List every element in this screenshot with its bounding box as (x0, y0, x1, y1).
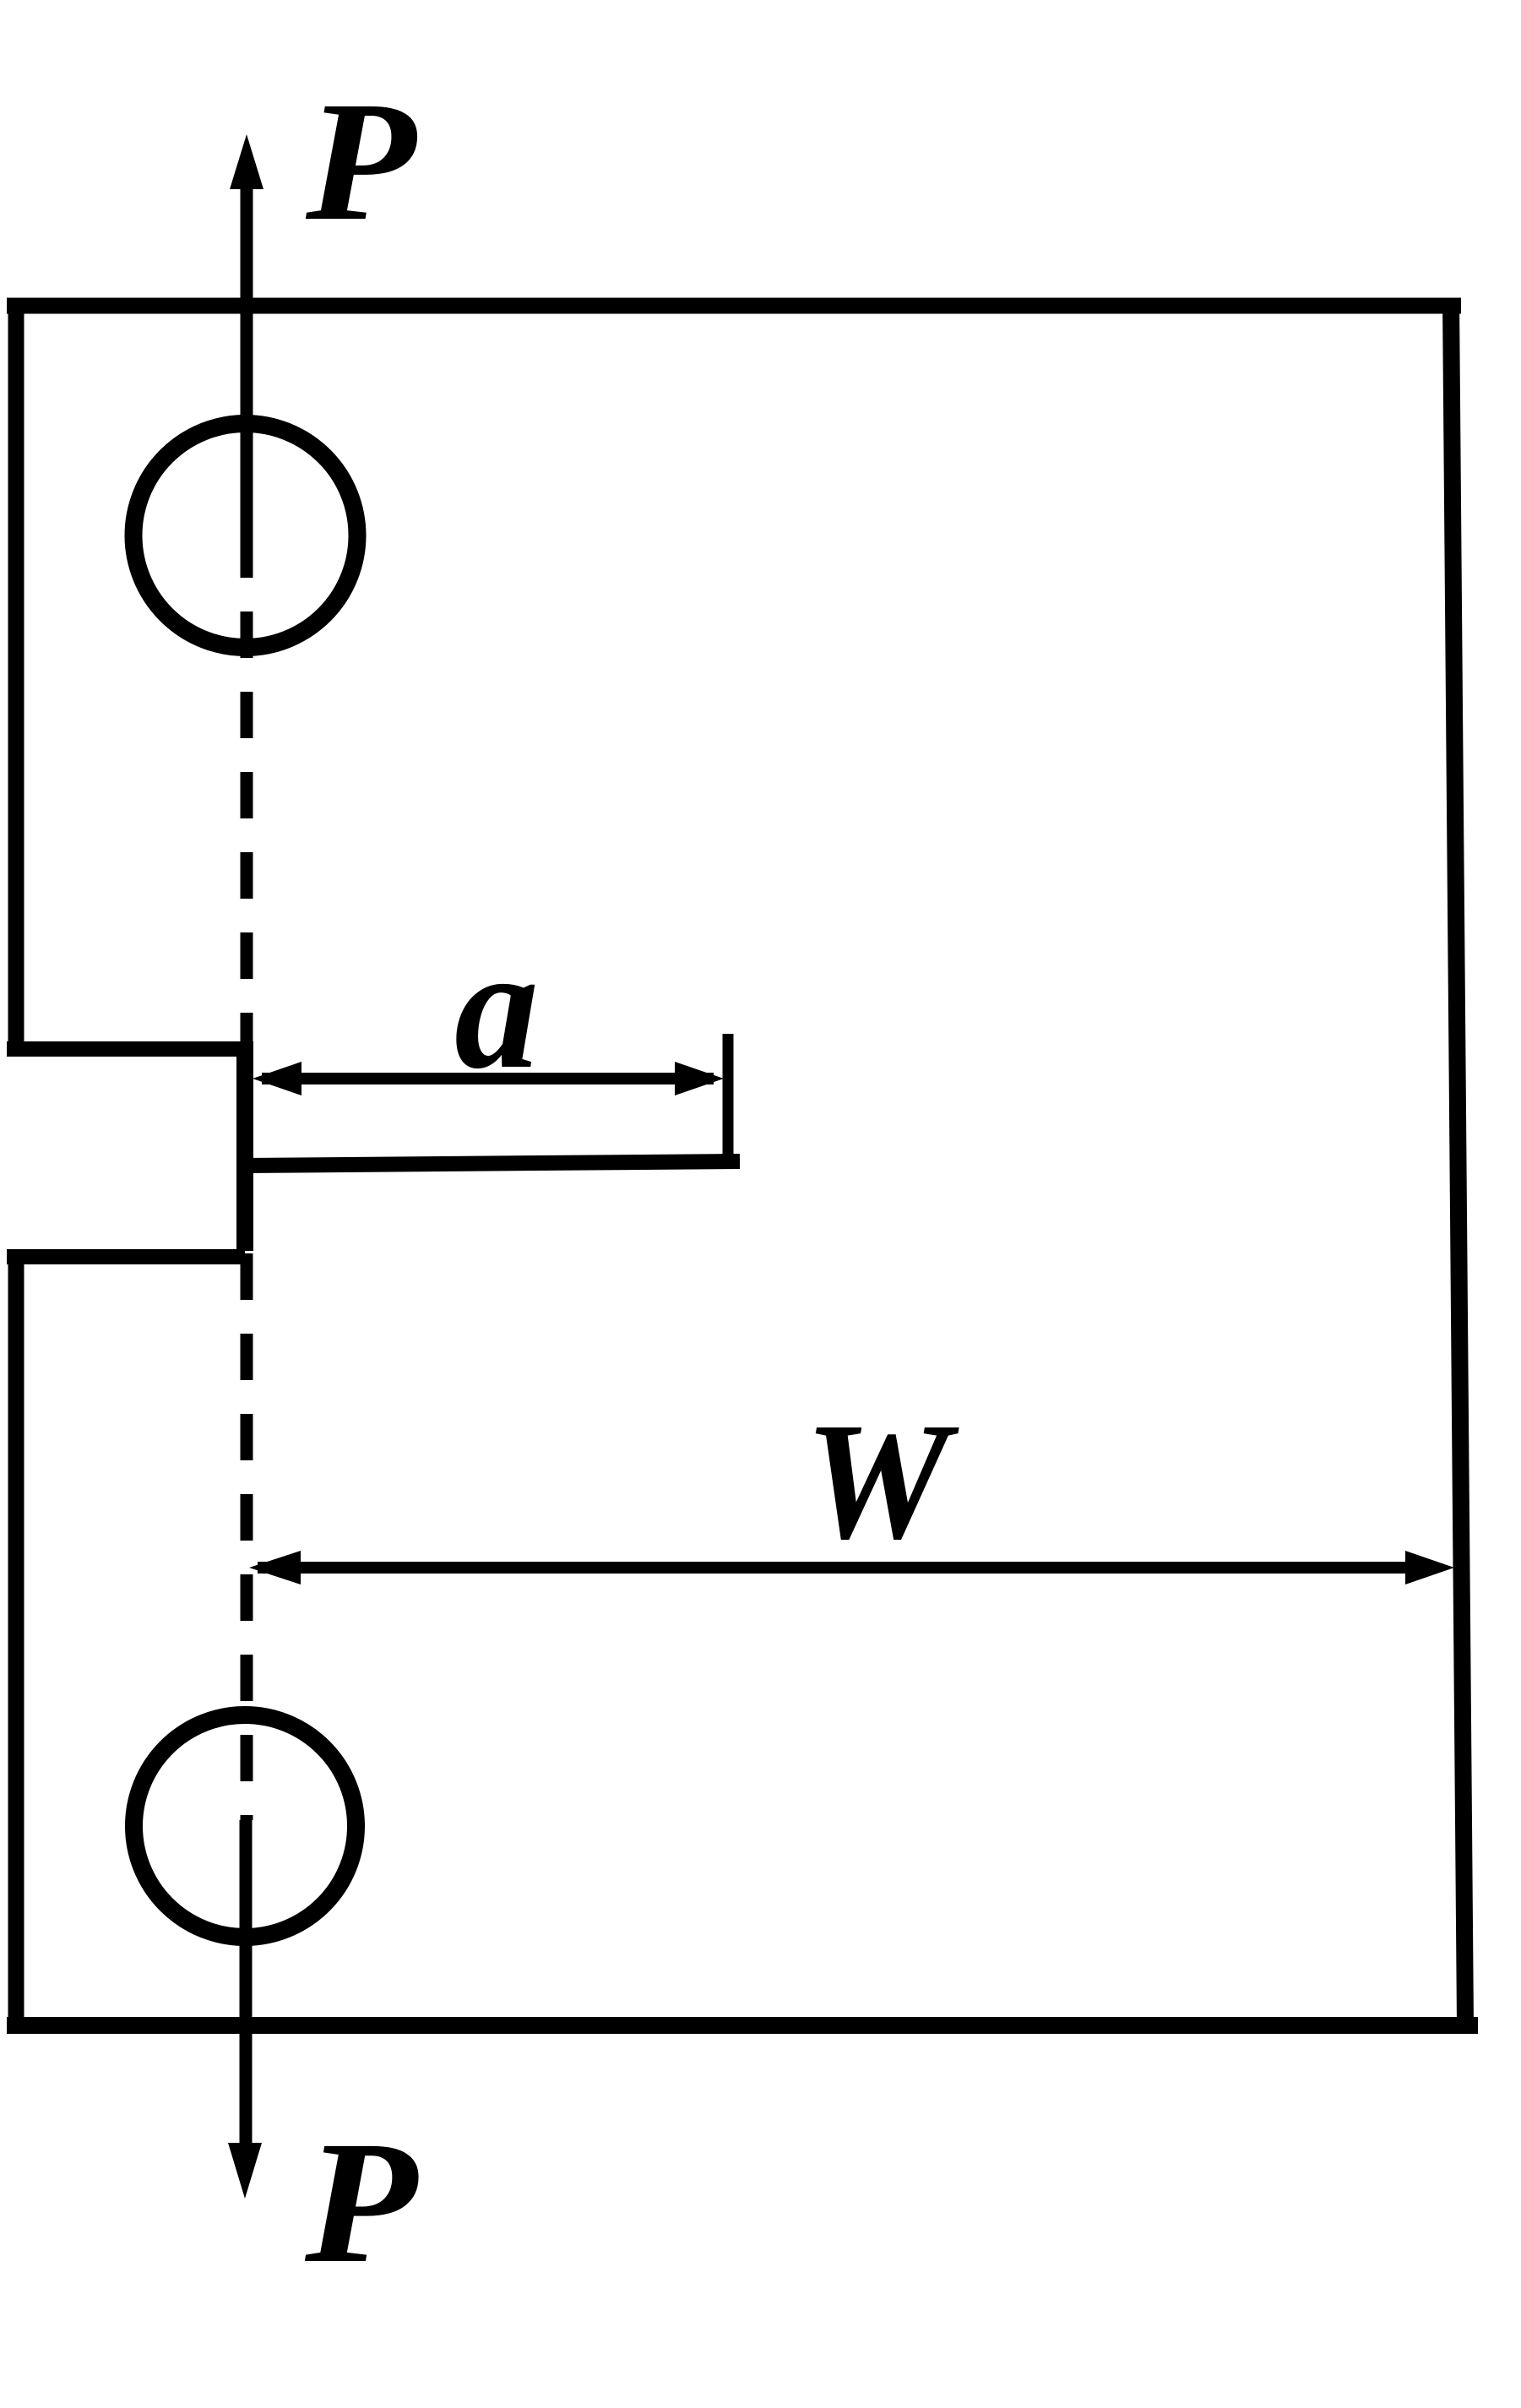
notch face (236, 1041, 253, 1251)
load line dashed centerline (241, 535, 253, 1820)
pin hole top (133, 424, 357, 648)
dimension a arrow line (262, 1073, 714, 1084)
svg-text:P: P (305, 67, 417, 257)
svg-text:a: a (454, 910, 539, 1106)
dimension a right arrowhead (675, 1062, 724, 1095)
specimen left edge upper (8, 298, 24, 1049)
dimension W right arrowhead (1405, 1551, 1454, 1584)
load arrow bottom head (228, 2143, 262, 2199)
crack line (245, 1161, 740, 1166)
notch top line (7, 1041, 245, 1057)
specimen bottom edge (7, 2017, 1478, 2034)
dimension a left arrowhead (253, 1062, 301, 1095)
load line solid shaft top (241, 188, 253, 535)
specimen left edge lower (8, 1257, 24, 2033)
dimension W left arrowhead (249, 1551, 301, 1584)
notch bottom line (7, 1249, 245, 1264)
svg-text:P: P (304, 2106, 419, 2300)
svg-text:W: W (805, 1389, 960, 1574)
crack tip tick (723, 1034, 734, 1168)
specimen top edge (7, 298, 1461, 314)
specimen right edge (1451, 300, 1465, 2025)
load line solid shaft bottom (240, 1820, 253, 2145)
pin hole bottom (134, 1715, 356, 1938)
load arrow top head (230, 134, 263, 189)
dimension W arrow line (258, 1562, 1436, 1574)
